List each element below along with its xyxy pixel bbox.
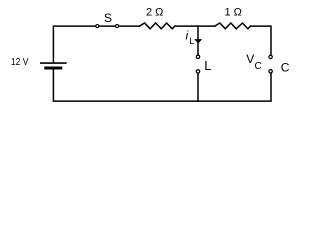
label 12 V	[11, 56, 29, 68]
svg-text:V: V	[246, 52, 254, 66]
svg-text:12 V: 12 V	[11, 56, 29, 68]
svg-text:L: L	[204, 58, 211, 73]
wire R1 to node A	[175, 25, 198, 27]
wire middle branch top (node A down to inductor)	[197, 26, 199, 55]
label L	[204, 58, 211, 73]
voltage source 12 V battery	[41, 63, 66, 68]
resistor 1 Ohm	[215, 23, 251, 29]
svg-text:C: C	[255, 61, 262, 72]
svg-text:2 Ω: 2 Ω	[146, 7, 163, 19]
inductor L terminals	[196, 55, 199, 73]
label VC	[246, 52, 261, 72]
resistor 2 Ohm	[139, 23, 174, 29]
wire top-left segment (corner to switch)	[53, 26, 95, 63]
svg-text:1 Ω: 1 Ω	[225, 7, 242, 19]
node A junction	[198, 25, 215, 27]
svg-text:L: L	[189, 36, 194, 46]
switch S	[96, 25, 119, 28]
label S	[104, 11, 112, 25]
wire middle branch bottom (inductor to bottom wire)	[197, 74, 199, 102]
wire switch to resistor R1	[119, 25, 139, 27]
current arrow iL	[194, 39, 202, 44]
wire R2 to top-right corner	[251, 26, 271, 55]
label C	[281, 60, 290, 74]
capacitor C terminals	[269, 55, 272, 73]
svg-text:i: i	[186, 29, 189, 43]
wire bottom-left segment	[53, 69, 198, 101]
svg-text:C: C	[281, 60, 290, 74]
label 2 Ohm	[146, 7, 163, 19]
label 1 Ohm	[225, 7, 242, 19]
wire capacitor to bottom-right corner	[198, 73, 271, 101]
label iL current	[186, 29, 195, 47]
svg-text:S: S	[104, 11, 112, 25]
